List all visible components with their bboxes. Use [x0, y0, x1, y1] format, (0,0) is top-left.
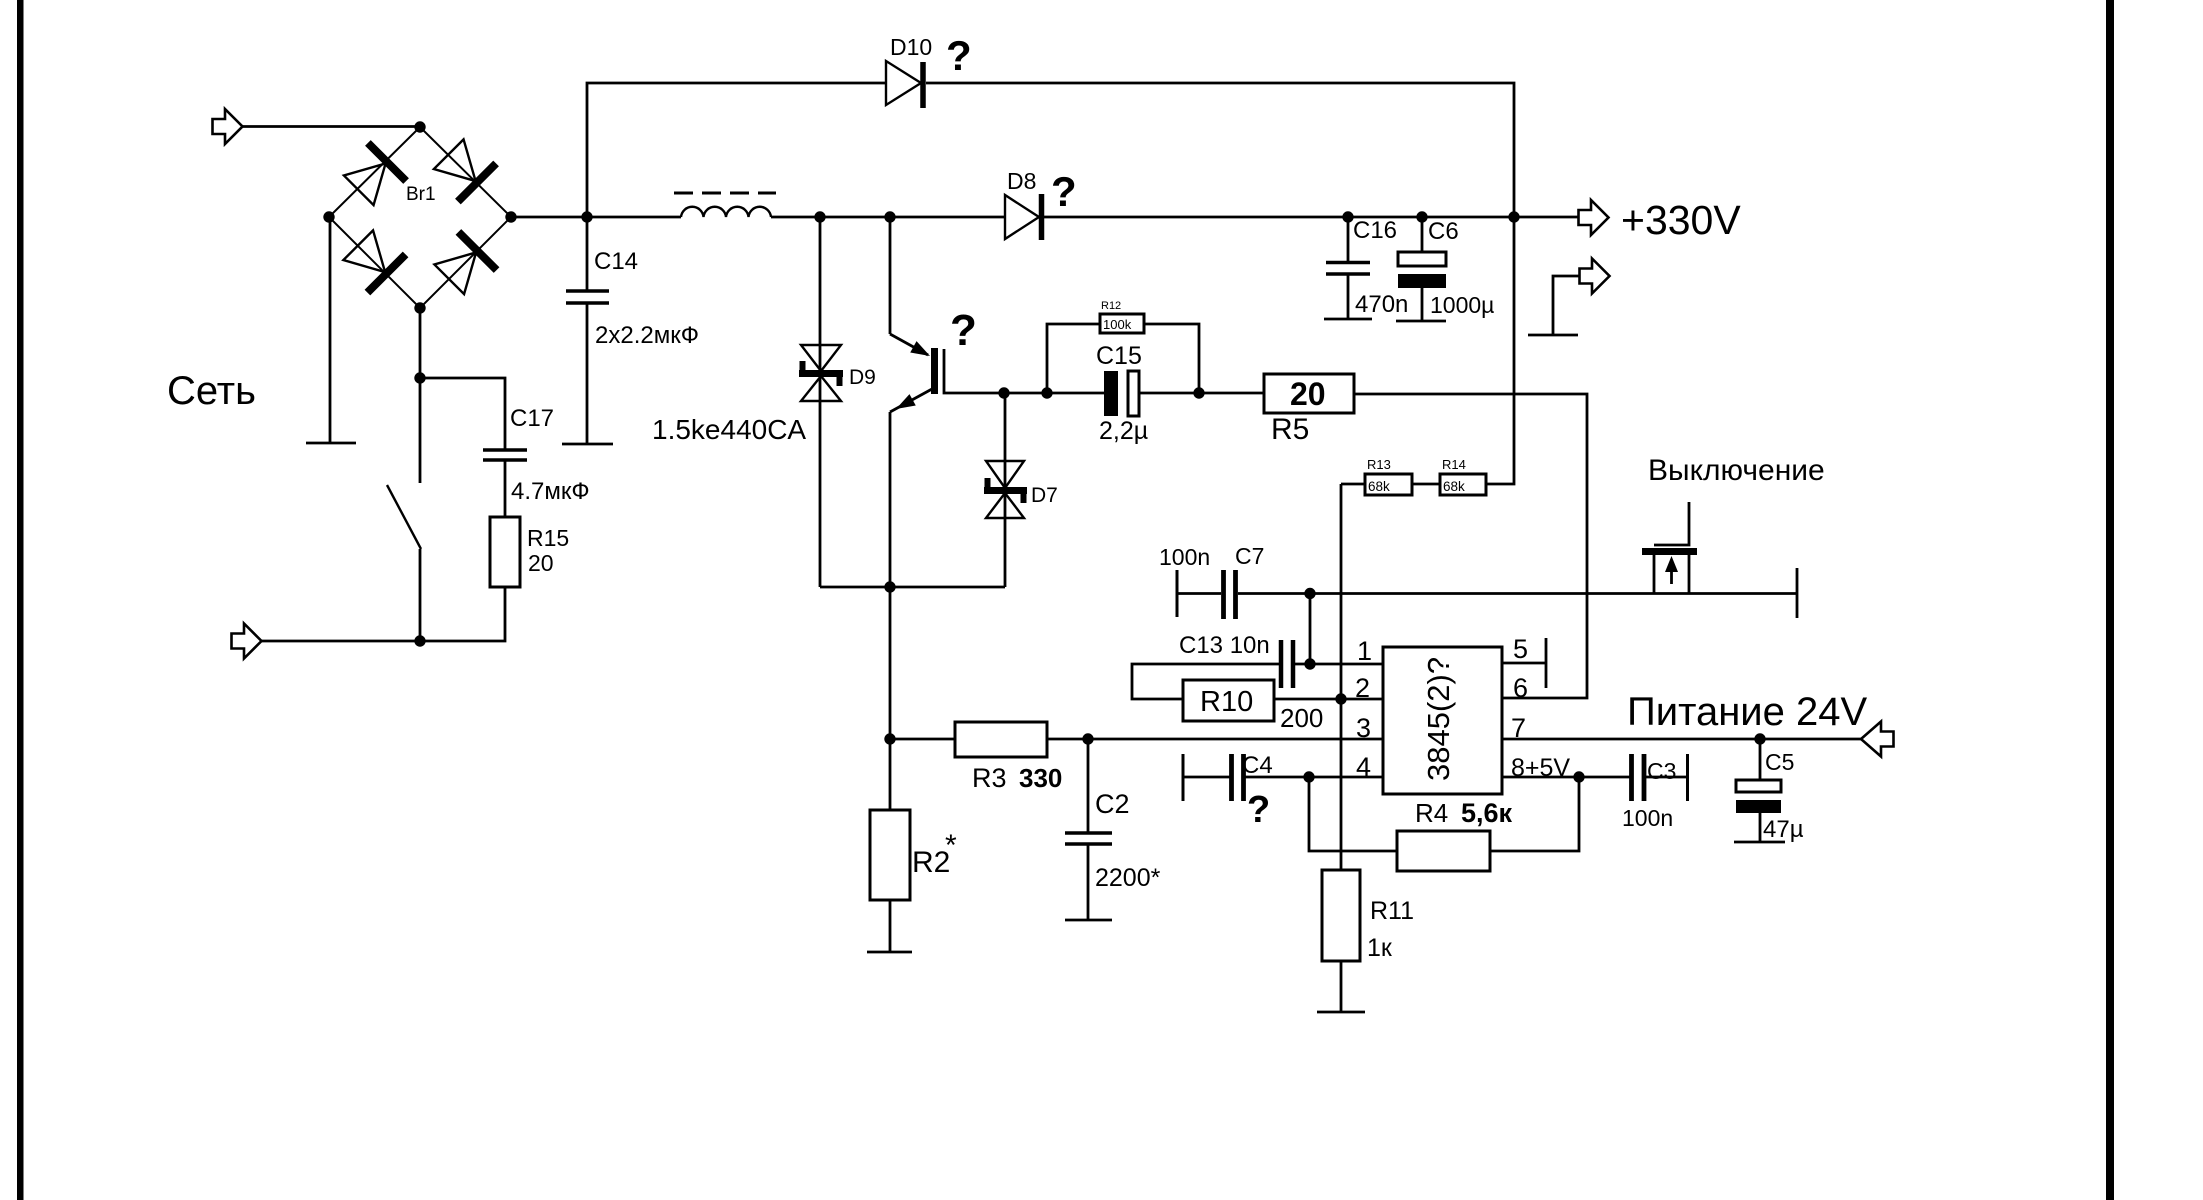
node pin8 [1573, 771, 1584, 782]
resistor R4 [1397, 831, 1490, 871]
resistor R12 [1100, 314, 1144, 333]
inductor L1 [681, 207, 771, 217]
wire R12 loop left [1047, 324, 1100, 393]
svg-text:?: ? [1051, 168, 1077, 215]
node C16 [1342, 211, 1353, 222]
wire R4 loop left [1309, 777, 1397, 851]
wire input2 [261, 640, 420, 643]
node bridge left [323, 211, 334, 222]
capacitor C17 [483, 450, 527, 460]
wire switch to bottom node [419, 549, 422, 641]
input arrow 1 [213, 109, 243, 144]
bridge diode bottom-right [430, 232, 496, 298]
svg-text:?: ? [950, 306, 977, 355]
resistor R13 [1365, 474, 1412, 495]
transistor Q1 lower diagonal [890, 389, 932, 412]
svg-text:?: ? [1247, 789, 1270, 831]
wire arrow2 to ground [1553, 276, 1580, 335]
svg-text:47µ: 47µ [1763, 816, 1804, 843]
transistor Q1 upper arrowhead [910, 341, 933, 362]
capacitor C4 [1183, 754, 1244, 801]
ground bar C14 [562, 443, 613, 446]
transistor Q1 collector lead [889, 217, 892, 334]
svg-text:R3: R3 [972, 763, 1007, 793]
svg-text:200: 200 [1280, 703, 1323, 733]
wire bridge right to inductor [511, 216, 681, 219]
svg-text:?: ? [946, 32, 972, 79]
svg-text:68k: 68k [1368, 479, 1390, 494]
switch Q2 arrow [1665, 556, 1678, 584]
svg-text:R11: R11 [1370, 897, 1414, 925]
svg-text:C5: C5 [1765, 749, 1794, 775]
wire R11 to ground [1340, 961, 1343, 1012]
svg-text:C2: C2 [1095, 789, 1130, 819]
svg-text:D7: D7 [1031, 484, 1058, 507]
node D10 return [1508, 211, 1519, 222]
wire R13 chain [1341, 483, 1366, 486]
wire C7 line to switch [1238, 592, 1797, 595]
svg-text:4.7мкФ: 4.7мкФ [511, 478, 590, 505]
bridge diode top-left [340, 143, 406, 209]
transistor Q1 emitter bar and lead [944, 349, 1004, 393]
node bottom connector [884, 581, 895, 592]
node pin2 [1335, 693, 1346, 704]
svg-text:2: 2 [1355, 673, 1370, 703]
wire R2 column [889, 587, 892, 810]
wire C13 loop to R10 [1132, 664, 1279, 699]
wire C15 to R5 [1139, 392, 1264, 395]
ground bar R11 [1317, 1011, 1365, 1014]
svg-text:6: 6 [1513, 673, 1528, 703]
svg-text:C17: C17 [510, 405, 554, 432]
resistor R14 [1440, 474, 1486, 495]
svg-text:20: 20 [528, 550, 554, 576]
svg-text:3845(2)?: 3845(2)? [1421, 657, 1456, 781]
node C14/D10 tap [581, 211, 592, 222]
wire D7 column [1004, 393, 1007, 587]
node bridge right [505, 211, 516, 222]
node pin1 [1304, 658, 1315, 669]
resistor R10 [1183, 680, 1274, 721]
svg-text:C14: C14 [594, 248, 638, 275]
svg-text:C4: C4 [1242, 752, 1273, 779]
resistor R5 [1264, 374, 1354, 413]
svg-text:1к: 1к [1367, 934, 1393, 962]
node D9 column [814, 211, 825, 222]
svg-text:1000µ: 1000µ [1430, 292, 1494, 318]
node R3 left [884, 733, 895, 744]
wire C14 bottom lead [586, 304, 589, 443]
wire C7 left lead [1177, 570, 1221, 617]
border right [2106, 0, 2114, 1200]
wire bridge left node to ground [329, 217, 332, 443]
wire bridge bottom down to switch [419, 308, 422, 483]
svg-text:470n: 470n [1355, 291, 1408, 318]
svg-text:68k: 68k [1443, 479, 1465, 494]
wire input1 to bridge [242, 125, 420, 128]
ground bar arrow2 [1528, 334, 1578, 337]
svg-text:2200*: 2200* [1095, 864, 1161, 892]
svg-text:D10: D10 [890, 34, 932, 60]
inductor core dashes [674, 192, 776, 195]
input arrow 2 [232, 624, 262, 659]
TVS D7 [984, 461, 1027, 518]
node transistor collector [884, 211, 895, 222]
svg-text:R10: R10 [1200, 686, 1253, 718]
bridge diode top-right [430, 135, 496, 201]
svg-text:C13 10n: C13 10n [1179, 632, 1270, 659]
svg-text:1.5ke440CA: 1.5ke440CA [652, 414, 806, 445]
svg-text:Сеть: Сеть [167, 369, 256, 413]
svg-text:D9: D9 [849, 366, 876, 389]
capacitor C3 [1632, 754, 1688, 801]
border left [17, 0, 24, 1200]
capacitor C14 [566, 291, 609, 303]
transistor Q1 lower arrowhead [893, 394, 916, 415]
svg-text:Питание 24V: Питание 24V [1627, 690, 1867, 734]
wire R13-R14 [1412, 483, 1440, 486]
capacitor C5 electrolytic [1734, 739, 1785, 842]
node C7 [1304, 588, 1315, 599]
wire pin5 [1502, 662, 1545, 665]
capacitor C16 [1324, 217, 1372, 319]
diode D10 [886, 61, 923, 108]
end bar right of switch [1796, 568, 1799, 618]
svg-text:C6: C6 [1428, 218, 1459, 245]
capacitor C7 [1224, 570, 1236, 619]
wire tap to C17 [420, 378, 505, 450]
wire D10 to corner [926, 83, 1514, 484]
svg-text:C7: C7 [1235, 543, 1264, 569]
input arrow 24V [1861, 722, 1894, 757]
node C5 [1754, 733, 1765, 744]
svg-text:3: 3 [1356, 713, 1371, 743]
bridge diode bottom-left [339, 226, 405, 292]
output arrow 2 [1580, 259, 1610, 294]
wire D10 branch up [587, 83, 886, 217]
capacitor C15 plate hollow [1128, 371, 1139, 416]
svg-text:R4: R4 [1415, 798, 1448, 828]
svg-text:*: * [945, 829, 957, 862]
wire C14 top lead [586, 217, 589, 290]
node bottom input [414, 635, 425, 646]
resistor R3 [955, 722, 1047, 757]
node C2 [1082, 733, 1093, 744]
capacitor C13 [1281, 640, 1293, 688]
svg-text:1: 1 [1357, 636, 1372, 666]
svg-text:+330V: +330V [1621, 197, 1741, 243]
wire R2 to ground [889, 900, 892, 952]
switch SW1 blade [387, 485, 421, 549]
TVS D9 [799, 345, 843, 401]
switch Q2 bar [1642, 548, 1697, 555]
wire node link down [1309, 594, 1312, 665]
node pin4 [1303, 771, 1314, 782]
svg-text:C3: C3 [1647, 758, 1676, 784]
wire pin1 [1295, 663, 1383, 666]
diode D8 [1005, 194, 1042, 240]
resistor R11 [1322, 870, 1360, 961]
wire D8 to +330V [1044, 216, 1578, 219]
svg-text:D8: D8 [1007, 168, 1036, 194]
node tap C17 [414, 372, 425, 383]
IC U1 box [1383, 647, 1502, 794]
wire pin8 [1502, 776, 1630, 779]
svg-text:Br1: Br1 [406, 184, 436, 205]
svg-text:100n: 100n [1622, 805, 1673, 831]
wire R10 to pin2 [1275, 698, 1383, 701]
svg-text:4: 4 [1356, 752, 1371, 782]
resistor R15 [490, 517, 520, 587]
wire R3 left [890, 738, 955, 741]
node R12 right [1193, 387, 1204, 398]
svg-text:R12: R12 [1101, 300, 1121, 312]
transistor Q1 base bar [931, 348, 938, 394]
svg-text:C16: C16 [1353, 217, 1397, 244]
svg-text:Выключение: Выключение [1648, 454, 1825, 487]
wire R4 loop right [1490, 777, 1579, 851]
svg-text:20: 20 [1290, 376, 1326, 412]
svg-text:R15: R15 [527, 525, 569, 551]
switch Q2 right leg [1688, 555, 1691, 593]
node bridge top [414, 121, 425, 132]
wire R12 loop right [1143, 324, 1199, 393]
node bridge bottom [414, 302, 425, 313]
node emitter [998, 387, 1009, 398]
wire pin7 to 24V [1502, 738, 1861, 741]
switch Q2 left leg [1653, 555, 1656, 593]
capacitor C15 plate filled [1104, 371, 1118, 416]
ground bar R2 [867, 951, 912, 954]
svg-text:R13: R13 [1367, 457, 1391, 472]
capacitor C6 electrolytic [1396, 217, 1446, 321]
svg-text:2,2µ: 2,2µ [1099, 417, 1148, 445]
svg-text:2x2.2мкФ: 2x2.2мкФ [595, 322, 699, 349]
wire emitter to C15 [1004, 392, 1104, 395]
transistor Q1 upper diagonal [890, 334, 928, 355]
svg-text:5: 5 [1513, 634, 1528, 664]
resistor R2 [870, 810, 910, 900]
wire R15 to bottom node [420, 587, 505, 641]
ground bar left [306, 442, 356, 445]
output arrow +330V [1579, 200, 1609, 235]
bridge Br1 diamond [329, 127, 511, 308]
wire Q1 to connector [889, 412, 892, 587]
svg-text:100k: 100k [1103, 317, 1132, 332]
node C6 [1416, 211, 1427, 222]
svg-text:5,6к: 5,6к [1461, 798, 1513, 828]
wire pin3 [1047, 738, 1383, 741]
node R12 left [1041, 387, 1052, 398]
pin5 end bar [1545, 638, 1548, 688]
svg-text:100n: 100n [1159, 544, 1210, 570]
wire D9 column [819, 217, 822, 587]
wire feedback column [1340, 484, 1343, 870]
wire inductor to D8 [771, 216, 1005, 219]
capacitor C2 [1065, 739, 1112, 920]
svg-text:R5: R5 [1271, 413, 1309, 446]
svg-text:330: 330 [1019, 763, 1062, 793]
wire bottom connector D9-D7 [820, 586, 1005, 589]
wire pin4 [1245, 776, 1383, 779]
switch Q2 gate lead [1654, 502, 1689, 545]
wire C17 to R15 [504, 461, 507, 517]
svg-text:R14: R14 [1442, 457, 1466, 472]
svg-text:C15: C15 [1096, 342, 1142, 370]
wire R5 to pin6 column [1354, 394, 1587, 698]
